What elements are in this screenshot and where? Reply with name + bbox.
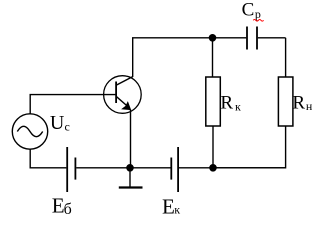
svg-text:C: C xyxy=(242,0,255,21)
capacitor Cp xyxy=(247,27,257,50)
svg-text:R: R xyxy=(220,92,233,113)
ground xyxy=(119,168,143,188)
svg-text:н: н xyxy=(306,99,313,113)
wire base xyxy=(30,94,117,96)
svg-text:E: E xyxy=(162,194,175,218)
transistor VT1 xyxy=(104,76,142,114)
wire Rn bottom xyxy=(213,126,286,168)
node emitter junction xyxy=(126,164,134,172)
svg-text:б: б xyxy=(64,201,72,218)
wire bottom middle xyxy=(76,167,170,169)
wire collector xyxy=(132,38,134,77)
resistor Rn xyxy=(278,77,293,126)
wire emitter xyxy=(130,110,132,168)
label Uc xyxy=(50,112,70,134)
resistor Rk xyxy=(206,77,221,126)
battery Eb xyxy=(67,147,75,192)
wire bottom right xyxy=(179,167,286,169)
svg-text:U: U xyxy=(50,112,65,134)
label Cp xyxy=(242,0,261,21)
AC source Uc xyxy=(12,114,47,149)
node collector junction xyxy=(209,34,217,42)
label Ek xyxy=(162,194,180,218)
svg-text:к: к xyxy=(174,203,180,217)
svg-text:c: c xyxy=(65,119,70,133)
wire Uc bottom stub xyxy=(29,149,31,168)
svg-text:E: E xyxy=(52,193,65,217)
wire top xyxy=(132,37,246,39)
wire cap to right xyxy=(258,37,286,39)
wire Rk bottom xyxy=(212,126,214,168)
svg-text:R: R xyxy=(292,92,305,113)
spellcheck squiggle xyxy=(253,20,263,22)
wire Rk top xyxy=(212,38,214,77)
label Rn xyxy=(292,92,313,113)
wire bottom left xyxy=(30,167,67,169)
wire right down xyxy=(285,38,287,77)
svg-text:к: к xyxy=(235,100,241,114)
wire Uc top stub xyxy=(29,95,31,114)
node bottom junction right xyxy=(209,164,217,172)
label Eb xyxy=(52,193,72,218)
battery Ek xyxy=(171,147,178,192)
label Rk xyxy=(220,92,241,113)
